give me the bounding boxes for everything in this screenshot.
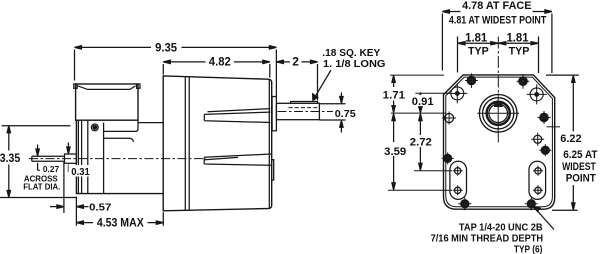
svg-text:TYP (6): TYP (6) — [514, 244, 543, 254]
gearbox housing outline — [76, 120, 163, 193]
tap note leader — [535, 208, 554, 230]
svg-text:0.91: 0.91 — [412, 96, 434, 108]
bracket step B — [104, 138, 134, 142]
svg-text:WIDEST: WIDEST — [562, 161, 596, 173]
extension line obround bottom hole row — [388, 189, 452, 191]
obround hole right-bottom — [535, 187, 541, 193]
extension line shaft center row — [391, 112, 446, 114]
svg-text:0.57: 0.57 — [89, 202, 111, 214]
shaft key hidden line — [289, 107, 318, 109]
extension line face top row — [390, 74, 444, 76]
svg-text:FLAT DIA.: FLAT DIA. — [23, 181, 60, 191]
mid-right cross hole — [534, 135, 542, 143]
bracket step A — [104, 129, 138, 131]
svg-text:6.25 AT: 6.25 AT — [563, 149, 598, 161]
svg-text:7/16 MIN THREAD DEPTH: 7/16 MIN THREAD DEPTH — [431, 233, 544, 244]
right edge bump — [272, 160, 274, 180]
obround hole left-bottom — [455, 187, 461, 193]
dimension 4.82 — [163, 62, 269, 78]
svg-text:6.22: 6.22 — [560, 133, 581, 145]
svg-text:9.35: 9.35 — [155, 41, 177, 55]
dimension 2.72 — [419, 120, 421, 163]
bottom screw right — [527, 200, 535, 208]
gearbox cover screw — [91, 124, 98, 131]
shaft crosshair — [477, 94, 519, 136]
shaft bore thick ring — [487, 102, 510, 125]
svg-text:2.72: 2.72 — [410, 137, 432, 149]
motor body outline — [163, 76, 272, 211]
obround hole left-top — [455, 168, 461, 174]
shaft bore — [489, 104, 508, 123]
terminal box lid seam — [78, 86, 136, 90]
terminal box lid tab right — [137, 84, 140, 88]
terminal box — [76, 84, 138, 120]
cross shaft boss — [65, 154, 77, 163]
top screw right — [519, 77, 527, 85]
dimension 9.35 — [75, 47, 277, 97]
svg-text:1.81: 1.81 — [465, 31, 487, 45]
svg-text:TYP: TYP — [509, 46, 530, 58]
extension line hole row — [415, 92, 449, 94]
left edge hole — [445, 114, 454, 123]
dimension 0.31 arrow — [68, 143, 70, 173]
svg-text:POINT: POINT — [566, 172, 596, 184]
motor flange double lines — [185, 77, 269, 211]
left edge screw lower — [444, 154, 452, 162]
dimension 3.59 — [393, 120, 395, 183]
svg-text:0.31: 0.31 — [71, 166, 90, 178]
extension line obround top hole row — [414, 170, 452, 172]
dimension 0.91 — [419, 99, 421, 106]
svg-text:2: 2 — [292, 54, 299, 68]
gearbox top ledge to motor — [138, 120, 163, 129]
upper-left cross hole — [451, 87, 464, 100]
face outline outer — [444, 75, 555, 209]
shaft hub — [272, 97, 276, 131]
shaft boss circle — [479, 95, 517, 133]
svg-text:4.81 AT WIDEST POINT: 4.81 AT WIDEST POINT — [449, 14, 547, 26]
output shaft — [276, 103, 319, 119]
svg-text:4.82: 4.82 — [209, 54, 231, 68]
bottom screw left — [461, 200, 469, 208]
dimension 4.53 MAX — [83, 212, 163, 226]
svg-text:4.53 MAX: 4.53 MAX — [97, 216, 144, 230]
svg-text:1. 1/8 LONG: 1. 1/8 LONG — [323, 58, 386, 70]
left mounting obround — [450, 161, 467, 199]
svg-text:1.81: 1.81 — [506, 31, 528, 45]
top screw left — [467, 76, 475, 84]
shaft key top — [291, 102, 318, 104]
svg-text:TAP 1/4-20 UNC 2B: TAP 1/4-20 UNC 2B — [459, 223, 543, 234]
dimension 0.27 arrow — [38, 145, 40, 171]
keyway — [494, 102, 503, 107]
gearbox plate lines — [78, 120, 103, 193]
obround hole right-top — [535, 168, 541, 174]
svg-text:4.78 AT FACE: 4.78 AT FACE — [462, 0, 531, 12]
dimension 3.35 — [0, 126, 76, 198]
shaft vertical centerline — [497, 37, 499, 94]
terminal box lid tab left — [74, 84, 77, 88]
cross shaft — [32, 156, 65, 161]
right edge screw lower — [541, 146, 549, 154]
dimension 6.22 / 6.25 — [546, 75, 579, 210]
svg-text:1.71: 1.71 — [383, 89, 405, 101]
face outline inner — [446, 77, 553, 207]
dimension 1.81 left — [458, 37, 499, 73]
motor upper vent bar — [204, 109, 270, 123]
centerline cross-shaft axis — [29, 158, 206, 160]
motor lower vent bar — [204, 154, 271, 165]
dimension 1.71 — [393, 82, 395, 105]
upper-right cross hole — [530, 88, 543, 101]
svg-text:3.35: 3.35 — [0, 151, 21, 165]
dimension 1.81 right — [498, 37, 538, 74]
svg-text:TYP: TYP — [468, 46, 489, 58]
dimension 0.75 — [320, 93, 346, 133]
right edge screw upper — [540, 113, 548, 121]
right mounting obround — [529, 161, 546, 199]
svg-text:0.75: 0.75 — [335, 108, 356, 120]
svg-text:.18 SQ. KEY: .18 SQ. KEY — [322, 47, 380, 59]
short extension line right edge — [547, 126, 560, 128]
dimension 4.78 / 4.81 — [442, 12, 552, 74]
shaft ring 2 — [483, 98, 514, 129]
motor shaft centerline — [278, 111, 334, 113]
dimension 2 — [276, 62, 317, 101]
dimension 0.57 — [50, 162, 89, 226]
key callout leader — [315, 70, 331, 98]
svg-text:3.59: 3.59 — [384, 146, 406, 158]
